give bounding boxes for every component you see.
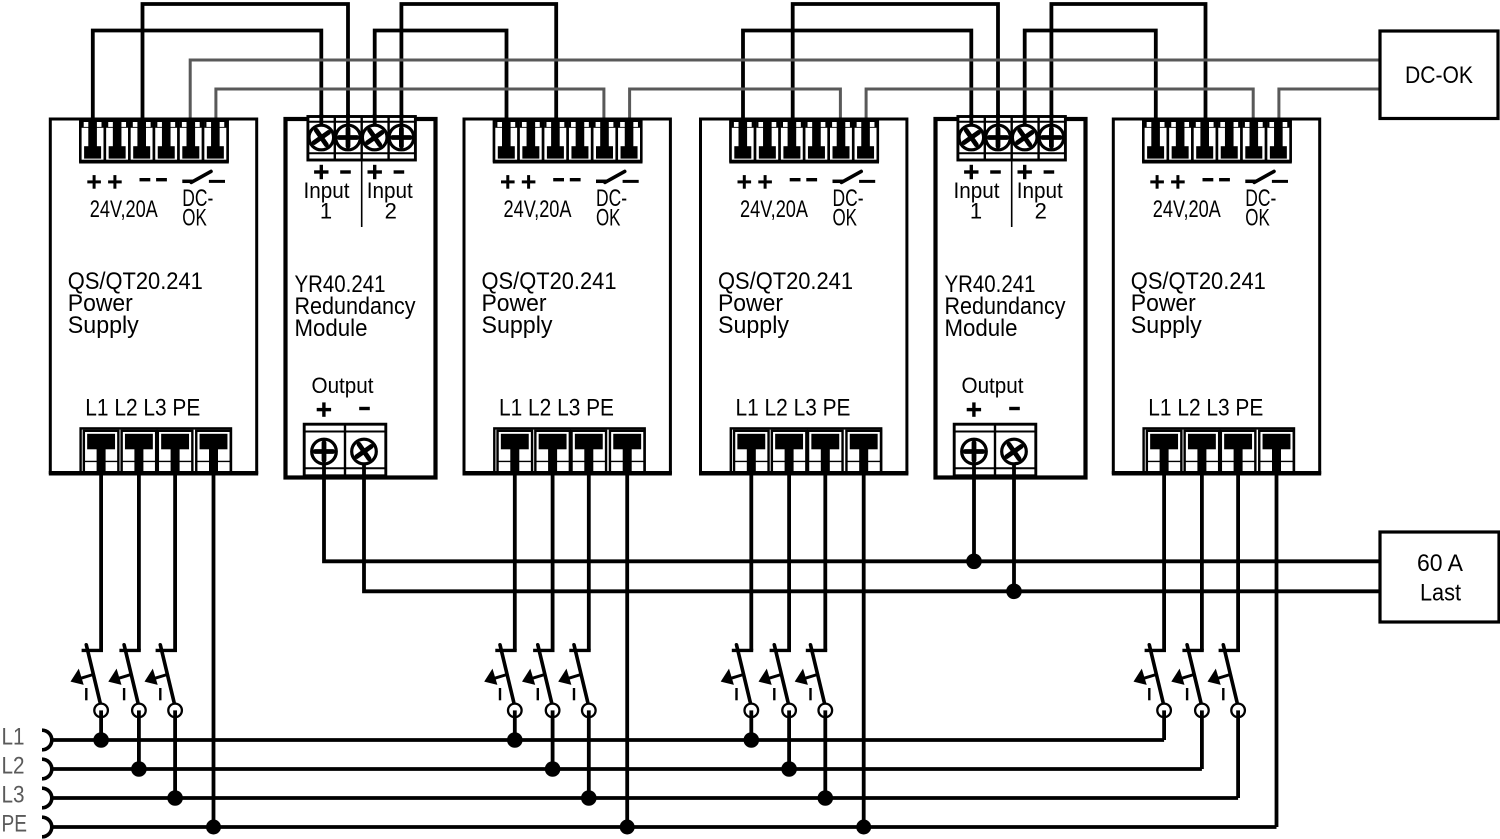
junction dot PS3-L2 on bus (781, 761, 797, 777)
circuit breaker PS2-L1: blade (500, 645, 514, 703)
junction dot PS1-L1 on bus (93, 732, 109, 748)
circuit breaker PS3-L2: fixed-contact jog (770, 649, 791, 652)
circuit breaker PS2-L2: stub to bus (551, 710, 555, 769)
circuit breaker PS2-L2: actuator dash (537, 688, 539, 700)
circuit breaker PS4-L1: actuator dash (1148, 688, 1150, 700)
circuit breaker PS3-L2: actuator dash (773, 688, 775, 700)
RM1 output screw block (304, 424, 386, 476)
circuit breaker PS2-L3: blade (574, 645, 588, 703)
power supply PS2 body (464, 119, 670, 474)
RM1 input screw block (308, 117, 416, 161)
wire PS3 - to RM2 Input1 - (793, 4, 998, 130)
svg-text:2: 2 (385, 199, 397, 224)
circuit breaker PS3-L2: stub to bus (787, 710, 791, 769)
PS3 top terminal 3 (780, 120, 805, 161)
svg-text:Module: Module (295, 315, 368, 342)
circuit breaker PS4-L3: contact circle (1231, 704, 1245, 718)
circuit breaker PS1-L2: release arrow (119, 675, 131, 679)
circuit breaker PS4-L2: release arrow (1182, 675, 1194, 679)
PS4 bottom edge (1112, 471, 1321, 474)
circuit breaker PS3-L3: release arrow (805, 675, 817, 679)
PS2 bottom terminal PE (610, 431, 645, 473)
svg-text:24V,20A: 24V,20A (1153, 196, 1221, 223)
bus line L2 (51, 767, 1202, 771)
circuit breaker PS3-L3: fixed-contact jog (806, 649, 827, 652)
svg-text:DC-OK: DC-OK (1405, 62, 1473, 89)
circuit breaker PS3-L3: blade (811, 645, 825, 703)
PS3 top terminal 5 (829, 120, 854, 161)
PS1 top terminal 2 (105, 120, 130, 161)
wire PS1 PE to PE bus (212, 472, 216, 827)
PS1 top terminal 1 (80, 120, 105, 161)
PS4 top terminal 5 (1242, 120, 1267, 161)
PS3 bottom terminal L1 (734, 431, 769, 473)
junction dot PS3-L3 on bus (818, 790, 834, 806)
svg-text:L1 L2 L3 PE: L1 L2 L3 PE (85, 395, 200, 422)
wire PS2 PE to PE bus (625, 472, 629, 827)
junction dot PS3-L1 on bus (744, 732, 760, 748)
RM1 output screw + (322, 452, 326, 479)
PS4 output terminal block (1144, 428, 1294, 473)
PS2 top terminal 6 (617, 120, 642, 161)
wire RM2 output - branch (1012, 474, 1016, 591)
circuit breaker PS4-L2: wire from pin (1200, 472, 1204, 650)
circuit breaker PS1-L3: blade (160, 645, 174, 703)
PS1 bottom edge (49, 471, 258, 474)
circuit breaker PS1-L2: blade (124, 645, 138, 703)
circuit breaker PS3-L3: wire from pin (823, 472, 827, 650)
circuit breaker PS2-L3: fixed-contact jog (569, 649, 590, 652)
circuit breaker PS1-L1: wire from pin (99, 472, 103, 650)
circuit breaker PS1-L1: contact circle (94, 704, 108, 718)
PS2 bottom terminal L1 (498, 431, 533, 473)
circuit breaker PS1-L3: fixed-contact jog (156, 649, 177, 652)
circuit breaker PS1-L1: blade (86, 645, 100, 703)
circuit breaker PS2-L1: contact circle (508, 704, 522, 718)
PS4 top terminal 4 (1217, 120, 1242, 161)
RM2 input screw 3 (+) (1023, 114, 1027, 138)
PS2 output terminal block (494, 428, 644, 473)
wire PS1 DC-OK b to PS2 DC-OK a (216, 89, 604, 130)
60 A load box (1380, 532, 1499, 622)
circuit breaker PS4-L2: actuator dash (1186, 688, 1188, 700)
PS4 top terminal 6 (1266, 120, 1291, 161)
PS3 bottom terminal PE (846, 431, 881, 473)
PS3 bottom terminal L3 (808, 431, 843, 473)
RM2 labels + - (967, 408, 981, 411)
wire RM2 Input2 - to PS4 - (1051, 4, 1205, 130)
circuit breaker PS1-L1: release arrow (81, 675, 93, 679)
PS1 bottom terminal PE (196, 431, 231, 473)
power supply PS1 body (50, 119, 256, 474)
circuit breaker PS1-L3: release arrow (155, 675, 167, 679)
circuit breaker PS3-L2: blade (774, 645, 788, 703)
PS4 bottom terminal L1 (1147, 431, 1182, 473)
circuit breaker PS2-L3: release arrow (569, 675, 581, 679)
circuit breaker PS3-L1: actuator dash (735, 688, 737, 700)
PS2 bottom edge (463, 471, 672, 474)
RM1 input screw 3 (+) (373, 114, 377, 138)
junction dot RM2 + on + rail (966, 554, 982, 570)
RM2 input screw block (958, 117, 1066, 161)
PS3 output terminal block (731, 428, 881, 473)
svg-text:L1 L2 L3 PE: L1 L2 L3 PE (736, 395, 851, 422)
PS1 top terminal 3 (129, 120, 154, 161)
svg-text:OK: OK (1245, 205, 1270, 232)
circuit breaker PS2-L1: actuator dash (499, 688, 501, 700)
circuit breaker PS1-L1: fixed-contact jog (82, 649, 103, 652)
redundancy module RM2 body (936, 119, 1086, 478)
circuit breaker PS1-L2: fixed-contact jog (119, 649, 140, 652)
circuit breaker PS3-L1: stub to bus (749, 710, 753, 740)
PS4 bottom terminal L3 (1221, 431, 1256, 473)
circuit breaker PS1-L1: stub to bus (99, 710, 103, 740)
power supply PS3 body (701, 119, 907, 474)
RM2 input screw 4 (-) (1050, 114, 1054, 138)
PS2 DC-OK contact symbol (596, 180, 607, 184)
circuit breaker PS2-L2: fixed-contact jog (533, 649, 554, 652)
junction dot PS2-L3 on bus (581, 790, 597, 806)
wire RM2 Input2 + to PS4 + (1025, 31, 1156, 131)
svg-text:L1 L2 L3 PE: L1 L2 L3 PE (1148, 395, 1263, 422)
circuit breaker PS4-L2: stub to bus (1200, 710, 1204, 769)
RM1 input screw 1 (+) (319, 114, 323, 138)
circuit breaker PS4-L2: blade (1187, 645, 1201, 703)
PS2 bottom terminal L3 (572, 431, 607, 473)
PS3 top terminal 4 (804, 120, 829, 161)
RM1 labels + - + - (314, 170, 328, 173)
bus L3 source arc (42, 788, 52, 808)
RM2 output screw block (954, 424, 1036, 476)
wire PS2 DC-OK b to PS3 DC-OK a (630, 89, 841, 130)
bus PE source arc (42, 817, 52, 837)
RM1 input screw 4 (-) (399, 114, 403, 138)
svg-text:OK: OK (596, 205, 621, 232)
wire PS4 DC-OK b to DC-OK box (1279, 89, 1381, 130)
PS3 top terminal 6 (853, 120, 878, 161)
PS2 bottom terminal L2 (535, 431, 570, 473)
PS3 input terminal block (731, 120, 878, 162)
wire PS3 DC-OK b to PS4 DC-OK a (866, 89, 1253, 130)
circuit breaker PS2-L2: contact circle (546, 704, 560, 718)
PS1 top terminal 6 (203, 120, 228, 161)
bus line L3 (51, 796, 1239, 800)
PS1 label + + (87, 180, 101, 183)
circuit breaker PS3-L3: actuator dash (809, 688, 811, 700)
wire PS3 PE to PE bus (862, 472, 866, 827)
junction dot RM2 - on - rail (1006, 584, 1022, 600)
circuit breaker PS2-L3: stub to bus (587, 710, 591, 798)
circuit breaker PS3-L2: wire from pin (787, 472, 791, 650)
RM2 input screw 2 (-) (996, 114, 1000, 138)
RM1 input divider line (361, 160, 363, 227)
PS1 DC-OK contact symbol (182, 180, 193, 184)
wire PS1 + to RM1 Input1 + (93, 31, 321, 131)
PS3 top terminal 1 (731, 120, 756, 161)
circuit breaker PS4-L1: stub to bus (1162, 710, 1166, 740)
circuit breaker PS3-L2: release arrow (769, 675, 781, 679)
PS1 top terminal 5 (179, 120, 204, 161)
PS2 top terminal 3 (543, 120, 568, 161)
wire RM1 Input2 - to PS2 - (401, 4, 556, 130)
junction dot PS1-L2 on bus (131, 761, 147, 777)
circuit breaker PS3-L3: contact circle (819, 704, 833, 718)
circuit breaker PS2-L2: wire from pin (551, 472, 555, 650)
circuit breaker PS4-L2: contact circle (1195, 704, 1209, 718)
circuit breaker PS3-L1: contact circle (745, 704, 759, 718)
PS3 bottom terminal L2 (772, 431, 807, 473)
PS1 bottom terminal L3 (158, 431, 193, 473)
svg-text:Supply: Supply (718, 312, 789, 339)
circuit breaker PS1-L3: actuator dash (159, 688, 161, 700)
PS4 label + + (1150, 180, 1164, 183)
PS4 top terminal 2 (1168, 120, 1193, 161)
PS2 label - - (553, 178, 564, 181)
PS4 bottom terminal L2 (1185, 431, 1220, 473)
circuit breaker PS4-L3: actuator dash (1222, 688, 1224, 700)
circuit breaker PS4-L3: blade (1223, 645, 1237, 703)
circuit breaker PS4-L2: fixed-contact jog (1182, 649, 1203, 652)
PS1 top terminal 4 (154, 120, 179, 161)
PS3 label - - (790, 178, 801, 181)
svg-text:1: 1 (970, 199, 982, 224)
PS2 top terminal 4 (568, 120, 593, 161)
bus line L1 (51, 738, 1165, 742)
svg-text:L2: L2 (2, 753, 25, 780)
circuit breaker PS4-L1: blade (1149, 645, 1163, 703)
circuit breaker PS4-L1: contact circle (1157, 704, 1171, 718)
RM2 output screw - (1012, 452, 1016, 479)
RM1 input screw 2 (-) (346, 114, 350, 138)
junction dot PS2-L2 on bus (545, 761, 561, 777)
wire RM1 output + to 60A load (324, 474, 1381, 561)
PS4 label - - (1203, 178, 1214, 181)
RM2 input divider line (1011, 160, 1013, 227)
svg-text:24V,20A: 24V,20A (740, 196, 808, 223)
wire PS1 - to RM1 Input1 - (143, 4, 349, 130)
RM2 output screw + (972, 452, 976, 479)
circuit breaker PS4-L3: fixed-contact jog (1219, 649, 1240, 652)
svg-text:1: 1 (320, 199, 332, 224)
circuit breaker PS4-L3: release arrow (1218, 675, 1230, 679)
svg-text:Supply: Supply (1131, 312, 1202, 339)
svg-text:L1: L1 (2, 724, 25, 751)
wire RM1 output - to 60A load (364, 474, 1381, 591)
svg-text:OK: OK (182, 205, 207, 232)
PS2 top terminal 5 (592, 120, 617, 161)
junction dot PS3 PE (856, 820, 871, 835)
svg-text:L1 L2 L3 PE: L1 L2 L3 PE (499, 395, 614, 422)
circuit breaker PS2-L1: fixed-contact jog (495, 649, 516, 652)
bus line PE (51, 825, 1277, 829)
PS4 bottom terminal PE (1259, 431, 1294, 473)
PS4 input terminal block (1143, 120, 1290, 162)
circuit breaker PS2-L1: wire from pin (513, 472, 517, 650)
circuit breaker PS4-L1: fixed-contact jog (1145, 649, 1166, 652)
DC-OK signal box (1380, 31, 1498, 119)
junction dot PS2 PE (620, 820, 635, 835)
circuit breaker PS4-L3: stub to bus (1236, 710, 1240, 798)
svg-text:PE: PE (2, 811, 28, 838)
junction dot PS1-L3 on bus (167, 790, 183, 806)
bus L2 source arc (42, 759, 52, 779)
svg-text:24V,20A: 24V,20A (90, 196, 158, 223)
circuit breaker PS2-L3: actuator dash (573, 688, 575, 700)
circuit breaker PS3-L1: blade (737, 645, 751, 703)
power supply PS4 body (1113, 119, 1319, 474)
PS1 input terminal block (80, 120, 227, 162)
PS3 DC-OK contact symbol (833, 180, 844, 184)
svg-text:60 A: 60 A (1417, 550, 1463, 577)
PS2 top terminal 2 (519, 120, 544, 161)
circuit breaker PS3-L1: fixed-contact jog (732, 649, 753, 652)
circuit breaker PS1-L1: actuator dash (85, 688, 87, 700)
svg-text:Module: Module (945, 315, 1018, 342)
PS4 top terminal 1 (1143, 120, 1168, 161)
RM1 output screw - (362, 452, 366, 479)
PS3 label + + (738, 180, 752, 183)
circuit breaker PS3-L1: wire from pin (749, 472, 753, 650)
circuit breaker PS1-L3: wire from pin (173, 472, 177, 650)
circuit breaker PS3-L3: stub to bus (823, 710, 827, 798)
wire PS3 + to RM2 Input1 + (743, 31, 971, 131)
circuit breaker PS2-L1: stub to bus (513, 710, 517, 740)
svg-text:Last: Last (1420, 580, 1461, 607)
PS4 DC-OK contact symbol (1245, 180, 1256, 184)
wire RM1 Input2 + to PS2 + (375, 31, 507, 131)
RM2 input screw 1 (+) (969, 114, 973, 138)
RM1 labels + - (317, 408, 331, 411)
circuit breaker PS1-L2: contact circle (132, 704, 146, 718)
circuit breaker PS4-L1: wire from pin (1162, 472, 1166, 650)
circuit breaker PS1-L2: actuator dash (123, 688, 125, 700)
circuit breaker PS1-L3: contact circle (168, 704, 182, 718)
svg-text:L3: L3 (2, 782, 25, 809)
circuit breaker PS2-L3: wire from pin (587, 472, 591, 650)
PS2 input terminal block (494, 120, 641, 162)
circuit breaker PS4-L1: release arrow (1144, 675, 1156, 679)
svg-text:24V,20A: 24V,20A (504, 196, 572, 223)
circuit breaker PS3-L1: release arrow (731, 675, 743, 679)
PS2 label + + (501, 180, 515, 183)
PS4 top terminal 3 (1192, 120, 1217, 161)
wire PS4 PE to PE bus (1275, 472, 1279, 827)
circuit breaker PS1-L3: stub to bus (173, 710, 177, 798)
wire RM2 output + branch (972, 474, 976, 561)
circuit breaker PS2-L3: contact circle (582, 704, 596, 718)
svg-text:Output: Output (962, 373, 1024, 398)
PS1 bottom terminal L2 (122, 431, 156, 473)
svg-text:Supply: Supply (68, 312, 139, 339)
junction dot PS1 PE (206, 820, 221, 835)
PS1 bottom terminal L1 (84, 431, 119, 473)
svg-text:OK: OK (833, 205, 858, 232)
wire PS1 DC-OK a to DC-OK box (190, 60, 1381, 130)
circuit breaker PS1-L2: wire from pin (137, 472, 141, 650)
PS3 top terminal 2 (755, 120, 780, 161)
svg-text:Output: Output (312, 373, 374, 398)
redundancy module RM1 body (286, 119, 436, 478)
bus L1 source arc (42, 730, 52, 750)
circuit breaker PS3-L2: contact circle (782, 704, 796, 718)
circuit breaker PS4-L3: wire from pin (1236, 472, 1240, 650)
svg-text:Supply: Supply (482, 312, 553, 339)
circuit breaker PS1-L2: stub to bus (137, 710, 141, 769)
PS3 bottom edge (699, 471, 908, 474)
circuit breaker PS2-L2: blade (538, 645, 552, 703)
circuit breaker PS2-L2: release arrow (532, 675, 544, 679)
junction dot PS2-L1 on bus (507, 732, 523, 748)
PS2 top terminal 1 (494, 120, 519, 161)
circuit breaker PS2-L1: release arrow (495, 675, 507, 679)
svg-text:2: 2 (1035, 199, 1047, 224)
RM2 labels + - + - (964, 170, 978, 173)
PS1 label - - (140, 178, 151, 181)
PS1 output terminal block (81, 428, 231, 473)
